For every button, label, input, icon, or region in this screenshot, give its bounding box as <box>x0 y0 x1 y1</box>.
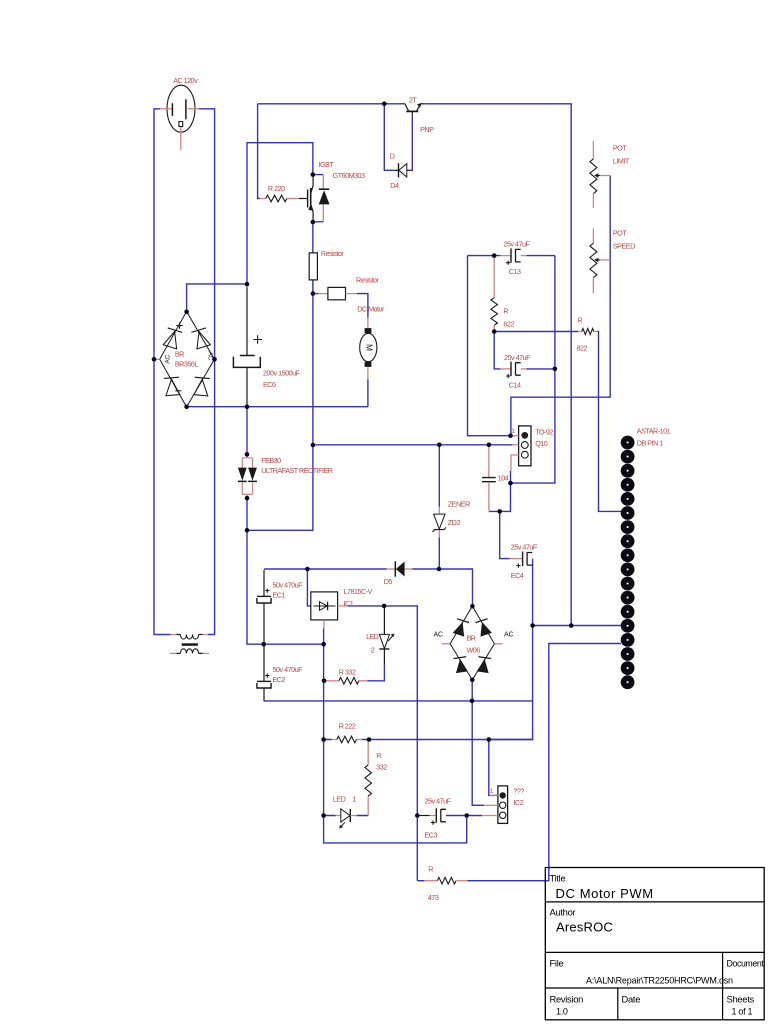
capacitor EC6 top plate <box>240 355 255 357</box>
resistor R222 left lead <box>332 739 337 741</box>
resistor R622 <box>491 298 498 326</box>
svg-text:C13: C13 <box>509 267 521 276</box>
wire IGBT emitter to series resistor <box>312 222 314 253</box>
capacitor EC3 left lead <box>417 815 429 817</box>
svg-text:50v 470uF: 50v 470uF <box>273 665 304 674</box>
AC source V1 ground blade <box>179 122 183 127</box>
wire LED1 anode row <box>324 815 369 817</box>
capacitor EC3 plus mark <box>431 821 435 825</box>
wire gate-drive row to Q10 pin 2 <box>313 444 513 446</box>
svg-text:DC Motor: DC Motor <box>357 304 385 313</box>
wire FEB30 node right and up to gate-drive node <box>247 294 313 531</box>
svg-text:BR: BR <box>175 349 184 358</box>
resistor R222 right lead <box>356 739 361 741</box>
wire EC4 + column down to IC2 pin1 row <box>489 559 533 740</box>
wire R622 node to C14 <box>494 332 500 369</box>
svg-text:1: 1 <box>490 788 494 795</box>
diode D4 left pin <box>395 169 399 171</box>
wire FEB30 cathode down left side to EC1/EC2 rail <box>247 498 324 644</box>
capacitor C14 plates <box>510 362 512 376</box>
diode D4 right pin <box>407 169 409 171</box>
svg-text:332: 332 <box>376 762 387 771</box>
svg-text:ZD2: ZD2 <box>448 518 461 527</box>
transformer TR1 secondary winding <box>180 649 198 654</box>
capacitor EC1 plus mark <box>265 589 269 593</box>
IGBT Q1 antiparallel diode top link <box>313 174 323 176</box>
svg-text:ASTAR-101: ASTAR-101 <box>637 426 671 435</box>
svg-text:AC: AC <box>434 631 443 638</box>
regulator IC1 output pin <box>338 605 348 607</box>
transformer TR1 primary pins <box>171 634 208 636</box>
resistor R822 left lead <box>578 331 582 333</box>
svg-text:D: D <box>390 151 395 160</box>
diode D4 cathode bar <box>398 163 400 177</box>
svg-text:BR356L: BR356L <box>175 360 198 369</box>
resistor R473 <box>437 877 456 884</box>
transistor IC2 pin 1 <box>490 794 498 796</box>
wire filter cap node up and over to IGBT collector <box>247 143 313 284</box>
wire filter cap minus node down to FEB30 <box>246 407 248 455</box>
bridge W06 right AC pin <box>494 643 502 645</box>
svg-text:Resistor: Resistor <box>321 249 344 258</box>
capacitor EC4 plus mark <box>516 564 520 568</box>
AC source V1 ground pin stub <box>180 127 182 150</box>
IGBT Q1 diode cathode bar <box>319 188 329 190</box>
capacitor C13 plus mark <box>506 261 510 265</box>
resistor R822 right lead <box>594 331 598 333</box>
svg-text:A:\ALN\Repair\TR2250HRC\PWM.ds: A:\ALN\Repair\TR2250HRC\PWM.dsn <box>586 976 733 986</box>
capacitor 104 bottom lead <box>488 482 490 511</box>
svg-text:???: ??? <box>513 787 524 796</box>
wire R473 row up to connector pin 15 <box>468 644 621 881</box>
wire zener ZD2 top lead <box>438 445 440 507</box>
svg-text:AC 120v: AC 120v <box>173 76 198 85</box>
wire AC source right leg through bridge AC terminal to transformer primary right <box>199 109 215 635</box>
wire zener ZD2 bottom lead <box>438 538 440 570</box>
svg-text:ULTRAFAST RECTIFIER: ULTRAFAST RECTIFIER <box>261 466 333 475</box>
capacitor EC1 plates <box>257 595 271 597</box>
capacitor EC1 bottom lead <box>263 603 265 642</box>
diode pair FEB30 cathode bars <box>238 480 257 482</box>
LED D1 body <box>341 809 350 822</box>
wire C13 row <box>468 255 555 257</box>
capacitor EC6 bottom lead <box>246 368 248 406</box>
resistor R473 right lead <box>456 880 468 882</box>
title block frame <box>545 868 764 1020</box>
capacitor EC4 left lead <box>510 558 523 560</box>
wire IC1 output row down right side to R473 corner <box>348 606 418 881</box>
resistor R332 (LED1) <box>365 765 372 796</box>
potentiometer POT SPEED body <box>590 243 597 277</box>
capacitor EC6 plus mark <box>253 335 262 344</box>
svg-text:Resistor: Resistor <box>356 276 379 285</box>
bridge rectifier BR W06 body <box>450 606 494 680</box>
capacitor 104 top lead <box>488 445 490 477</box>
junction dots <box>382 102 387 107</box>
svg-text:EC2: EC2 <box>273 675 286 684</box>
resistor R220 left lead <box>260 198 266 200</box>
capacitor EC2 bottom lead <box>263 688 265 701</box>
capacitor EC6 top lead <box>246 287 248 355</box>
resistor (horizontal box) body <box>328 287 346 299</box>
wire EC4 node row to connector pin 14 <box>533 625 621 627</box>
transistor Q10 body <box>519 426 531 466</box>
wire bridge + output up to filter cap node <box>187 284 247 312</box>
diode D4 body <box>399 164 407 177</box>
capacitor C13 right lead <box>521 255 527 257</box>
AC source V1 body <box>167 85 195 132</box>
zener ZD2 bottom pin <box>438 530 440 538</box>
svg-text:622: 622 <box>503 320 514 329</box>
wire EC2 ground rail to W06 - node <box>264 700 533 702</box>
zener ZD2 top pin <box>438 507 440 514</box>
DC motor M1 bottom terminal <box>365 362 372 367</box>
resistor R220 right lead <box>287 198 299 200</box>
transformer TR1 core <box>182 643 198 646</box>
IGBT Q1 transistor part <box>299 198 308 200</box>
capacitor EC6 cup plate <box>233 357 260 368</box>
wire top rail left segment <box>258 103 400 105</box>
wire top rail right segment down right side <box>425 104 572 626</box>
capacitor C13 plates <box>510 248 512 262</box>
DC motor M1 bottom pin <box>367 367 369 379</box>
wire AC source left leg to transformer primary left <box>154 109 171 635</box>
svg-text:EC3: EC3 <box>425 831 438 840</box>
bridge BR356L plus mark <box>176 322 182 328</box>
svg-text:25v 47uF: 25v 47uF <box>504 353 531 362</box>
diode D5 left pin <box>387 568 395 570</box>
wire R622/R822 row <box>494 331 578 333</box>
bridge BR356L minus mark <box>175 390 181 392</box>
wire 104 cap bottom row up to C13/C14 column <box>489 256 555 512</box>
resistor R332 (LED1) top lead <box>367 740 369 765</box>
svg-text:AC: AC <box>504 631 513 638</box>
svg-text:Title: Title <box>550 873 566 884</box>
wire C13 node down to Q10 pin 1 <box>468 256 511 436</box>
svg-text:File: File <box>550 958 564 969</box>
capacitor C14 right lead <box>521 368 527 370</box>
capacitor EC2 plates <box>257 680 271 682</box>
potentiometer POT LIMIT bottom pin <box>592 194 594 208</box>
wire IC1 input pin drop <box>307 569 310 606</box>
wire R222 row to EC4/connector column <box>324 739 533 741</box>
wire IC2 pin 1 drop <box>489 740 498 796</box>
regulator IC1 body <box>311 592 338 620</box>
wire PNP collector branch to D4 anode <box>384 104 395 171</box>
svg-text:AC: AC <box>165 354 172 363</box>
svg-text:POT: POT <box>613 228 627 237</box>
svg-text:25v 47uF: 25v 47uF <box>425 797 452 806</box>
wire top rail drop to R220 <box>258 104 260 199</box>
svg-text:2T: 2T <box>409 95 417 104</box>
svg-text:R: R <box>578 315 583 324</box>
capacitor C13 left lead <box>500 255 510 257</box>
bridge W06 left AC pin <box>442 643 450 645</box>
LED D2 cathode lead <box>383 649 385 664</box>
wire LED2 cathode to R332 <box>367 665 384 681</box>
svg-text:BR: BR <box>467 633 476 642</box>
DC motor M1 top pin <box>367 318 369 329</box>
transistor IC2 pin 2 <box>484 804 498 806</box>
wire EC3 to IC2 pin 3 row <box>446 815 482 817</box>
IGBT Q1 diode cathode lead <box>322 175 324 189</box>
transistor IC2 body <box>498 786 508 824</box>
wire regulator input row with D5 to W06 + vertex <box>264 568 387 570</box>
diode pair FEB30 bodies <box>238 468 247 481</box>
potentiometer POT SPEED bottom pin <box>592 278 594 294</box>
capacitor EC4 plates <box>522 552 524 567</box>
transistor Q10 pin 1 <box>511 435 519 437</box>
capacitor C14 left lead <box>500 368 510 370</box>
svg-text:Q10: Q10 <box>535 439 548 448</box>
wire EC4 input drop <box>500 511 510 558</box>
wire D4 cathode to PNP base <box>409 116 412 170</box>
resistor R220 <box>266 195 287 202</box>
svg-text:DC Motor PWM: DC Motor PWM <box>556 886 654 901</box>
regulator IC1 ground pin <box>323 620 325 629</box>
resistor (horizontal box) right pin <box>346 293 358 295</box>
transformer TR1 secondary pins <box>170 652 209 654</box>
diode D5 right pin <box>405 568 413 570</box>
transistor Q10 pin 2 <box>512 444 518 446</box>
svg-text:1.0: 1.0 <box>556 1007 568 1017</box>
svg-text:C14: C14 <box>509 380 521 389</box>
LED D2 body <box>379 634 389 648</box>
resistor R822 <box>582 329 594 335</box>
capacitor 104 plates <box>482 478 496 482</box>
resistor R332 (LED2) left lead <box>326 680 339 682</box>
transistor 2T (PNP) body <box>399 104 408 111</box>
IGBT Q1 diode body <box>319 190 330 204</box>
svg-text:R 332: R 332 <box>339 667 356 676</box>
DC motor M1 top terminal <box>365 328 372 333</box>
wire sense resistor to DC motor + <box>357 294 368 318</box>
AC source V1 left blade <box>171 103 173 116</box>
diode D5 body <box>396 562 405 577</box>
resistor R332 (LED2) <box>339 678 359 685</box>
svg-text:R 220: R 220 <box>268 184 285 193</box>
svg-text:50v 470uF: 50v 470uF <box>273 580 304 589</box>
svg-text:PNP: PNP <box>420 125 434 134</box>
svg-text:TO-92: TO-92 <box>535 427 553 436</box>
svg-text:104: 104 <box>498 474 509 483</box>
resistor R222 <box>337 736 357 743</box>
svg-text:L7815C-V: L7815C-V <box>344 587 373 596</box>
svg-text:ZENER: ZENER <box>448 499 470 508</box>
wire Q10 pin3 drop <box>510 471 512 483</box>
svg-text:D5: D5 <box>384 577 393 586</box>
resistor R332 (LED2) right lead <box>359 680 367 682</box>
wire DC motor - to bottom rail <box>367 379 369 406</box>
svg-text:IGBT: IGBT <box>319 160 335 169</box>
potentiometer POT LIMIT wiper <box>598 175 600 177</box>
svg-text:Date: Date <box>622 994 641 1005</box>
DC motor M1 body <box>360 333 377 361</box>
LED D2 anode lead <box>383 607 385 635</box>
resistor R622 bottom lead <box>493 325 495 331</box>
svg-text:1: 1 <box>353 795 357 804</box>
svg-text:D4: D4 <box>390 181 399 190</box>
svg-text:AresROC: AresROC <box>556 920 613 935</box>
svg-text:R: R <box>376 751 381 760</box>
AC source V1 right pin <box>188 108 199 110</box>
svg-text:R 222: R 222 <box>339 722 356 731</box>
wire IC1 ground column down to LED1 loop <box>324 629 467 843</box>
svg-text:SPEED: SPEED <box>613 241 635 250</box>
svg-text:IC1: IC1 <box>344 599 354 608</box>
svg-text:Author: Author <box>550 907 576 918</box>
svg-text:R: R <box>428 865 433 874</box>
capacitor C14 plus mark <box>506 374 510 378</box>
svg-text:473: 473 <box>428 893 439 902</box>
resistor (vertical box) body <box>309 253 317 280</box>
transistor IC2 pin 3 <box>482 815 498 817</box>
connector ASTAR-101 DB pins <box>621 436 635 450</box>
svg-text:822: 822 <box>577 343 588 352</box>
IGBT Q1 antiparallel diode bottom link <box>313 221 323 223</box>
svg-text:GT60M303: GT60M303 <box>333 171 365 180</box>
svg-text:DB PIN 1: DB PIN 1 <box>637 439 663 448</box>
LED D1 cathode pin <box>350 815 356 817</box>
svg-text:200v 1500uF: 200v 1500uF <box>263 369 301 378</box>
LED D1 anode pin <box>336 815 341 817</box>
svg-text:Document: Document <box>727 959 765 969</box>
svg-text:LED: LED <box>333 795 346 804</box>
svg-text:FEB30: FEB30 <box>261 456 281 465</box>
wire W06 - down to IC2 pin 2 <box>472 680 484 805</box>
svg-text:25v 47uF: 25v 47uF <box>503 239 530 248</box>
wire bottom rail (bridge - to motor) <box>187 406 368 408</box>
diode pair FEB30 bottom leads <box>242 482 252 498</box>
svg-text:Revision: Revision <box>550 994 584 1005</box>
potentiometer POT LIMIT top pin <box>592 141 594 159</box>
wire C14 right lead to column <box>527 368 555 370</box>
wire R822 down to connector pin 6 <box>598 332 621 512</box>
resistor R473 left lead <box>417 880 424 882</box>
IGBT Q1 diode anode lead <box>322 205 324 222</box>
AC source V1 left pin <box>160 108 172 110</box>
diode pair FEB30 top leads <box>242 454 252 467</box>
transistor Q10 pin 3 <box>511 455 519 471</box>
diode D5 cathode bar <box>394 561 396 576</box>
bridge BR356L left AC pin <box>155 358 159 360</box>
svg-text:EC6: EC6 <box>263 380 276 389</box>
resistor (horizontal box) left pin <box>318 293 328 295</box>
svg-text:EC1: EC1 <box>273 590 286 599</box>
svg-text:M: M <box>364 344 374 351</box>
svg-text:Sheets: Sheets <box>727 994 755 1005</box>
capacitor EC2 top lead <box>263 646 265 681</box>
bridge rectifier BR BR356L body <box>160 312 215 408</box>
svg-text:2: 2 <box>371 645 375 654</box>
AC source V1 right blade <box>185 99 187 119</box>
capacitor EC2 plus mark <box>265 674 269 678</box>
potentiometer POT LIMIT body <box>590 159 597 194</box>
svg-text:1 of 1: 1 of 1 <box>732 1007 753 1017</box>
svg-text:EC4: EC4 <box>511 571 524 580</box>
resistor R622 top lead <box>493 256 495 298</box>
resistor R332 (LED1) bottom lead <box>367 796 369 815</box>
capacitor EC1 top lead <box>263 570 265 596</box>
svg-text:25v 47uF: 25v 47uF <box>511 542 538 551</box>
svg-text:R: R <box>503 307 508 316</box>
svg-text:POT: POT <box>613 144 627 153</box>
zener ZD2 body <box>434 514 445 529</box>
svg-text:LED: LED <box>366 634 378 641</box>
potentiometer POT SPEED top pin <box>592 228 594 243</box>
svg-text:IC2: IC2 <box>513 798 523 807</box>
capacitor EC3 plates <box>435 808 437 822</box>
svg-text:LIMIT: LIMIT <box>613 157 630 166</box>
svg-text:W06: W06 <box>467 646 481 655</box>
wire series resistor to resistor junction <box>313 280 319 294</box>
potentiometer POT SPEED wiper <box>598 259 600 261</box>
transformer TR1 primary winding <box>180 635 198 640</box>
wire pot wipers down and over to Q10 pin 1 column <box>511 176 610 436</box>
